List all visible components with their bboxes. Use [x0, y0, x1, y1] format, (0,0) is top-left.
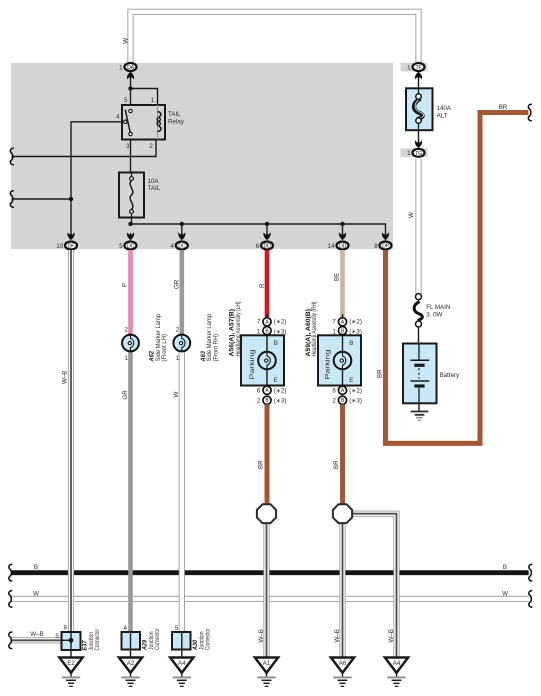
svg-text:(∗3): (∗3): [274, 328, 287, 335]
battery: [403, 344, 460, 404]
svg-text:DP: DP: [382, 243, 390, 249]
svg-text:10A: 10A: [148, 178, 160, 185]
headlamp assembly A59(A),A60(B) RH: [305, 302, 362, 405]
svg-text:3: 3: [126, 143, 130, 150]
svg-text:2: 2: [176, 326, 180, 333]
svg-text:A1: A1: [263, 660, 271, 667]
ground E2: [59, 658, 82, 687]
svg-text:A4: A4: [393, 660, 401, 667]
svg-text:Relay: Relay: [168, 118, 185, 125]
svg-text:Parking: Parking: [249, 349, 256, 380]
fuse 10A TAIL: [119, 173, 161, 218]
node: dot at fuse branch: [128, 222, 132, 226]
svg-text:7: 7: [257, 318, 261, 325]
svg-text:2: 2: [149, 143, 153, 150]
svg-text:BE: BE: [334, 273, 341, 281]
wire R from 6 DD to LH headlamp: [259, 250, 267, 317]
svg-text:B: B: [503, 564, 507, 571]
svg-text:(∗2): (∗2): [349, 388, 362, 395]
connector 6 DD: [256, 232, 273, 249]
junction connector A30: [172, 625, 212, 658]
svg-text:A2: A2: [127, 660, 135, 667]
svg-text:A4: A4: [178, 660, 186, 667]
break symbol on BR wire top right: [528, 104, 531, 121]
wire P from 5 DC to A62: [122, 250, 131, 335]
connector 1 TF: [407, 63, 424, 79]
svg-text:ALT: ALT: [437, 112, 448, 119]
svg-text:R: R: [259, 283, 266, 288]
svg-text:DC: DC: [178, 243, 186, 249]
wire from left break to pin-4 branch: [12, 198, 72, 200]
wire ALT to 1 TG: [418, 130, 420, 146]
svg-text:W: W: [122, 38, 129, 44]
svg-text:4: 4: [116, 114, 120, 121]
svg-text:1: 1: [151, 97, 155, 104]
connector 10 DF: [56, 232, 77, 249]
connector 1 TG: [407, 140, 424, 157]
svg-text:W–B: W–B: [61, 371, 68, 384]
svg-text:6: 6: [257, 388, 261, 395]
svg-text:B: B: [349, 340, 353, 347]
wire W-B from 10 DF down to E37: [61, 250, 71, 632]
wire relay pin 3 to fuse: [130, 140, 132, 173]
svg-text:7: 7: [332, 318, 336, 325]
svg-text:1: 1: [125, 355, 129, 362]
svg-text:TAIL: TAIL: [148, 185, 161, 192]
headlamp assembly A56(A),A57(B) LH: [229, 302, 287, 405]
svg-text:W–B: W–B: [30, 631, 43, 638]
node: junction dot below 1 DA: [128, 86, 132, 90]
wire BR from RH headlamp to splice: [333, 404, 343, 504]
svg-text:E: E: [274, 377, 278, 384]
wire BR from LH headlamp to splice: [257, 404, 267, 504]
svg-text:BR: BR: [499, 104, 508, 111]
svg-text:(Front LH): (Front LH): [161, 334, 168, 362]
wire relay pin 2 to left break: [12, 140, 157, 157]
svg-text:1: 1: [332, 328, 336, 335]
svg-text:8: 8: [64, 625, 68, 632]
wire BE from 14 DD to RH headlamp: [334, 250, 343, 317]
wire W-B from RH splice down to ground A6: [334, 523, 343, 658]
svg-text:(Front RH): (Front RH): [212, 334, 219, 362]
ground A4 (right): [385, 658, 408, 687]
svg-text:140A: 140A: [437, 105, 452, 112]
svg-text:14: 14: [328, 243, 335, 250]
svg-text:Battery: Battery: [440, 372, 461, 379]
node: dot at 4 DC branch: [180, 222, 184, 226]
wire FL MAIN to battery: [418, 327, 420, 344]
junction connector A29: [122, 625, 162, 658]
svg-text:5: 5: [175, 625, 179, 632]
svg-text:5: 5: [124, 97, 128, 104]
svg-text:W–B: W–B: [258, 629, 265, 642]
svg-text:Connector: Connector: [94, 629, 101, 651]
svg-text:BR: BR: [257, 460, 264, 469]
node: dot at 14 DD branch: [340, 222, 344, 226]
svg-text:W–B: W–B: [334, 629, 341, 642]
ground A4 (left): [170, 658, 193, 687]
svg-text:Parking: Parking: [325, 349, 332, 380]
connector 14 DD: [328, 232, 349, 249]
svg-text:(∗2): (∗2): [274, 318, 287, 325]
wire GR from 4 DC to A63: [173, 250, 181, 335]
ground A2: [119, 658, 142, 687]
break symbol B bus left: [9, 564, 12, 581]
wire W-B from LH splice down to ground A1: [258, 523, 267, 658]
wire 1 TF arrow: [418, 74, 420, 88]
fusible link FL MAIN 3.0W: [414, 294, 450, 327]
svg-text:E: E: [349, 377, 353, 384]
node: dot at 6 DD branch: [265, 222, 269, 226]
svg-text:DF: DF: [68, 243, 76, 249]
svg-text:2: 2: [257, 397, 261, 404]
svg-text:GR: GR: [173, 279, 180, 289]
svg-text:W: W: [33, 590, 39, 597]
svg-text:Headlamp Assembly (LH): Headlamp Assembly (LH): [235, 302, 242, 357]
wire W bus across bottom: [11, 590, 529, 599]
wire B thick ground bus across bottom: [11, 564, 529, 573]
svg-text:10: 10: [56, 243, 63, 250]
svg-text:4: 4: [171, 243, 175, 250]
svg-text:6: 6: [256, 243, 260, 250]
gray tab behind connector 1 TF: [401, 63, 428, 72]
svg-text:Headlamp Assembly (RH): Headlamp Assembly (RH): [311, 302, 318, 357]
svg-text:(∗3): (∗3): [274, 397, 287, 404]
svg-text:Connector: Connector: [205, 629, 212, 651]
connector 4 DC: [171, 232, 188, 249]
gray tab behind connector 1 TG: [401, 148, 428, 157]
junction connector E37: [55, 625, 101, 658]
connector 5 DC: [119, 232, 136, 249]
svg-text:1: 1: [407, 65, 411, 72]
svg-text:Connector: Connector: [154, 629, 161, 651]
svg-text:3. 0W: 3. 0W: [426, 311, 442, 318]
wire W from 1 DA up over to 1 TF: [122, 12, 418, 62]
lamp A63 Side Marker Lamp (Front RH): [173, 313, 219, 362]
wire from 1 DA to relay pins 5 and 1: [131, 74, 158, 105]
wire BR from 8 DP around to right break: [376, 104, 528, 443]
relay TAIL Relay: [116, 97, 185, 150]
svg-text:(∗2): (∗2): [274, 388, 287, 395]
connector 1 DA: [119, 63, 136, 79]
svg-text:TG: TG: [415, 151, 422, 157]
wire GR from A62 down to A29: [122, 352, 131, 632]
svg-text:W–B: W–B: [388, 629, 395, 642]
wire W-B from left break into E37: [11, 631, 62, 640]
svg-text:5: 5: [55, 633, 59, 640]
break symbol B bus right: [529, 564, 532, 581]
svg-text:B: B: [34, 564, 38, 571]
svg-text:DC: DC: [127, 243, 135, 249]
break symbol W bus left: [9, 591, 12, 608]
svg-text:BR: BR: [333, 460, 340, 469]
svg-text:TAIL: TAIL: [168, 111, 181, 118]
break symbol W-B wire left: [9, 632, 12, 649]
break symbol left (pin 2 wire): [10, 148, 13, 165]
svg-text:DD: DD: [263, 243, 271, 249]
break symbol W bus right: [529, 591, 532, 608]
svg-text:1: 1: [176, 355, 180, 362]
svg-text:1: 1: [257, 328, 261, 335]
svg-text:B: B: [274, 340, 278, 347]
svg-text:P: P: [122, 283, 129, 287]
svg-text:8: 8: [374, 243, 378, 250]
wire fuse output bus to connectors: [131, 218, 386, 237]
wire W-B branch from RH splice to ground A4: [352, 514, 397, 658]
svg-text:(∗3): (∗3): [349, 328, 362, 335]
svg-text:W: W: [502, 590, 508, 597]
svg-text:A6: A6: [339, 660, 347, 667]
svg-text:1: 1: [119, 65, 123, 72]
svg-text:GR: GR: [122, 390, 129, 400]
svg-text:DA: DA: [127, 65, 135, 71]
lamp A62 Side Marker Lamp (Front LH): [122, 313, 168, 362]
wire relay pin 4 down to 10 DF: [71, 122, 122, 236]
svg-text:1: 1: [407, 150, 411, 157]
ground below battery: [411, 403, 429, 420]
svg-text:2: 2: [332, 397, 336, 404]
svg-text:2: 2: [125, 326, 129, 333]
svg-text:(∗3): (∗3): [349, 397, 362, 404]
svg-text:W: W: [173, 392, 180, 398]
svg-text:5: 5: [119, 243, 123, 250]
splice octagon RH: [333, 504, 352, 523]
ground A1: [255, 658, 278, 687]
svg-text:E2: E2: [67, 660, 75, 667]
svg-text:6: 6: [332, 388, 336, 395]
wire W from A63 down to A30: [173, 352, 182, 632]
connector 8 DP: [374, 232, 391, 249]
svg-text:BR: BR: [376, 369, 383, 378]
fusible link 140A ALT: [406, 88, 452, 130]
junction block (instrument panel J/B, gray background): [11, 63, 393, 249]
ground A6: [331, 658, 354, 687]
svg-text:FL MAIN: FL MAIN: [426, 304, 450, 311]
node: junction dot on pin-4 wire: [69, 197, 73, 201]
wire W from 1 TG down to FL MAIN: [408, 159, 419, 294]
splice octagon LH: [257, 504, 276, 523]
svg-text:W: W: [408, 212, 415, 218]
svg-text:DD: DD: [339, 243, 347, 249]
svg-text:4: 4: [124, 625, 128, 632]
svg-text:(∗2): (∗2): [349, 318, 362, 325]
break symbol left (second wire): [10, 191, 13, 208]
